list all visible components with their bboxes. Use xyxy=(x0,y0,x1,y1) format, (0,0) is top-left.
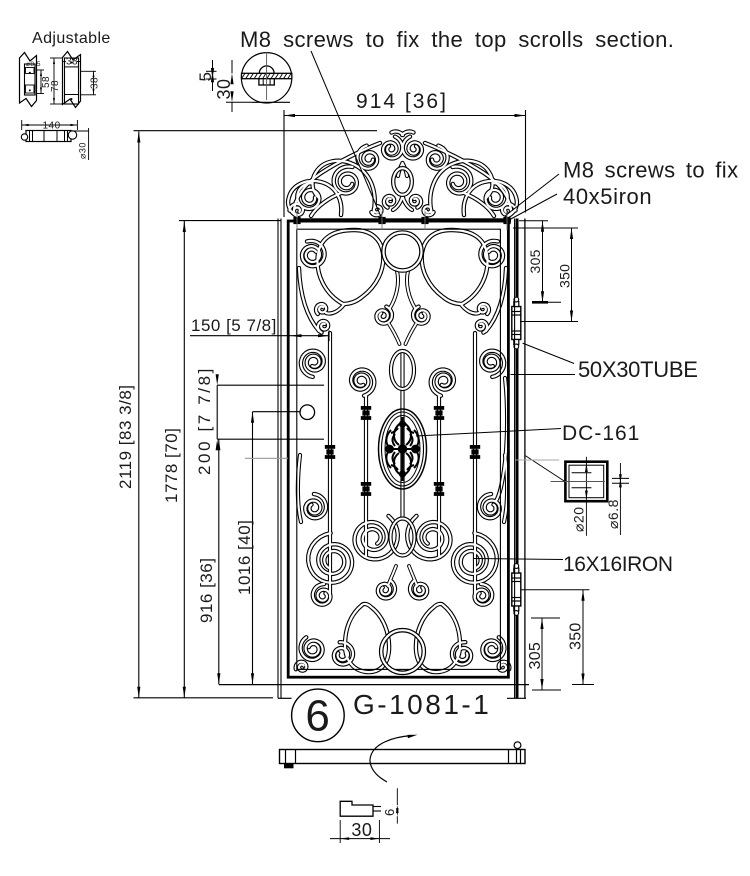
svg-text:M8 screws to fix the top scrol: M8 screws to fix the top scrolls section… xyxy=(240,27,674,52)
svg-text:1778 [70]: 1778 [70] xyxy=(162,428,181,503)
svg-text:38: 38 xyxy=(66,57,78,68)
svg-text:⌀8.5: ⌀8.5 xyxy=(26,61,41,68)
svg-text:Adjustable: Adjustable xyxy=(32,30,111,47)
svg-text:38: 38 xyxy=(90,77,101,89)
svg-text:DC-161: DC-161 xyxy=(562,422,640,445)
svg-text:350: 350 xyxy=(568,622,585,650)
svg-text:⌀20: ⌀20 xyxy=(571,506,587,532)
svg-text:1016 [40]: 1016 [40] xyxy=(235,520,254,595)
svg-text:30: 30 xyxy=(214,78,234,99)
svg-text:30: 30 xyxy=(351,820,372,840)
svg-text:150 [5 7/8]: 150 [5 7/8] xyxy=(191,316,277,335)
svg-text:914 [36]: 914 [36] xyxy=(356,90,448,113)
svg-text:6: 6 xyxy=(305,692,330,741)
svg-text:5: 5 xyxy=(196,72,215,82)
svg-text:916 [36]: 916 [36] xyxy=(197,558,216,623)
svg-text:⌀6.8: ⌀6.8 xyxy=(605,499,621,529)
svg-text:140: 140 xyxy=(43,121,61,132)
svg-text:G-1081-1: G-1081-1 xyxy=(353,689,491,720)
svg-text:200 [7 7/8]: 200 [7 7/8] xyxy=(195,366,214,475)
svg-text:M8 screws to fix: M8 screws to fix xyxy=(563,158,739,183)
svg-text:⌀30: ⌀30 xyxy=(78,142,88,159)
svg-text:78: 78 xyxy=(50,80,61,92)
svg-text:50X30TUBE: 50X30TUBE xyxy=(578,357,698,382)
svg-text:40x5iron: 40x5iron xyxy=(563,184,652,209)
svg-text:305: 305 xyxy=(527,249,543,273)
svg-text:16X16IRON: 16X16IRON xyxy=(563,553,673,576)
svg-text:2119 [83 3/8]: 2119 [83 3/8] xyxy=(116,385,135,490)
svg-text:6: 6 xyxy=(382,808,397,816)
svg-text:305: 305 xyxy=(527,642,544,670)
svg-text:350: 350 xyxy=(557,264,573,288)
